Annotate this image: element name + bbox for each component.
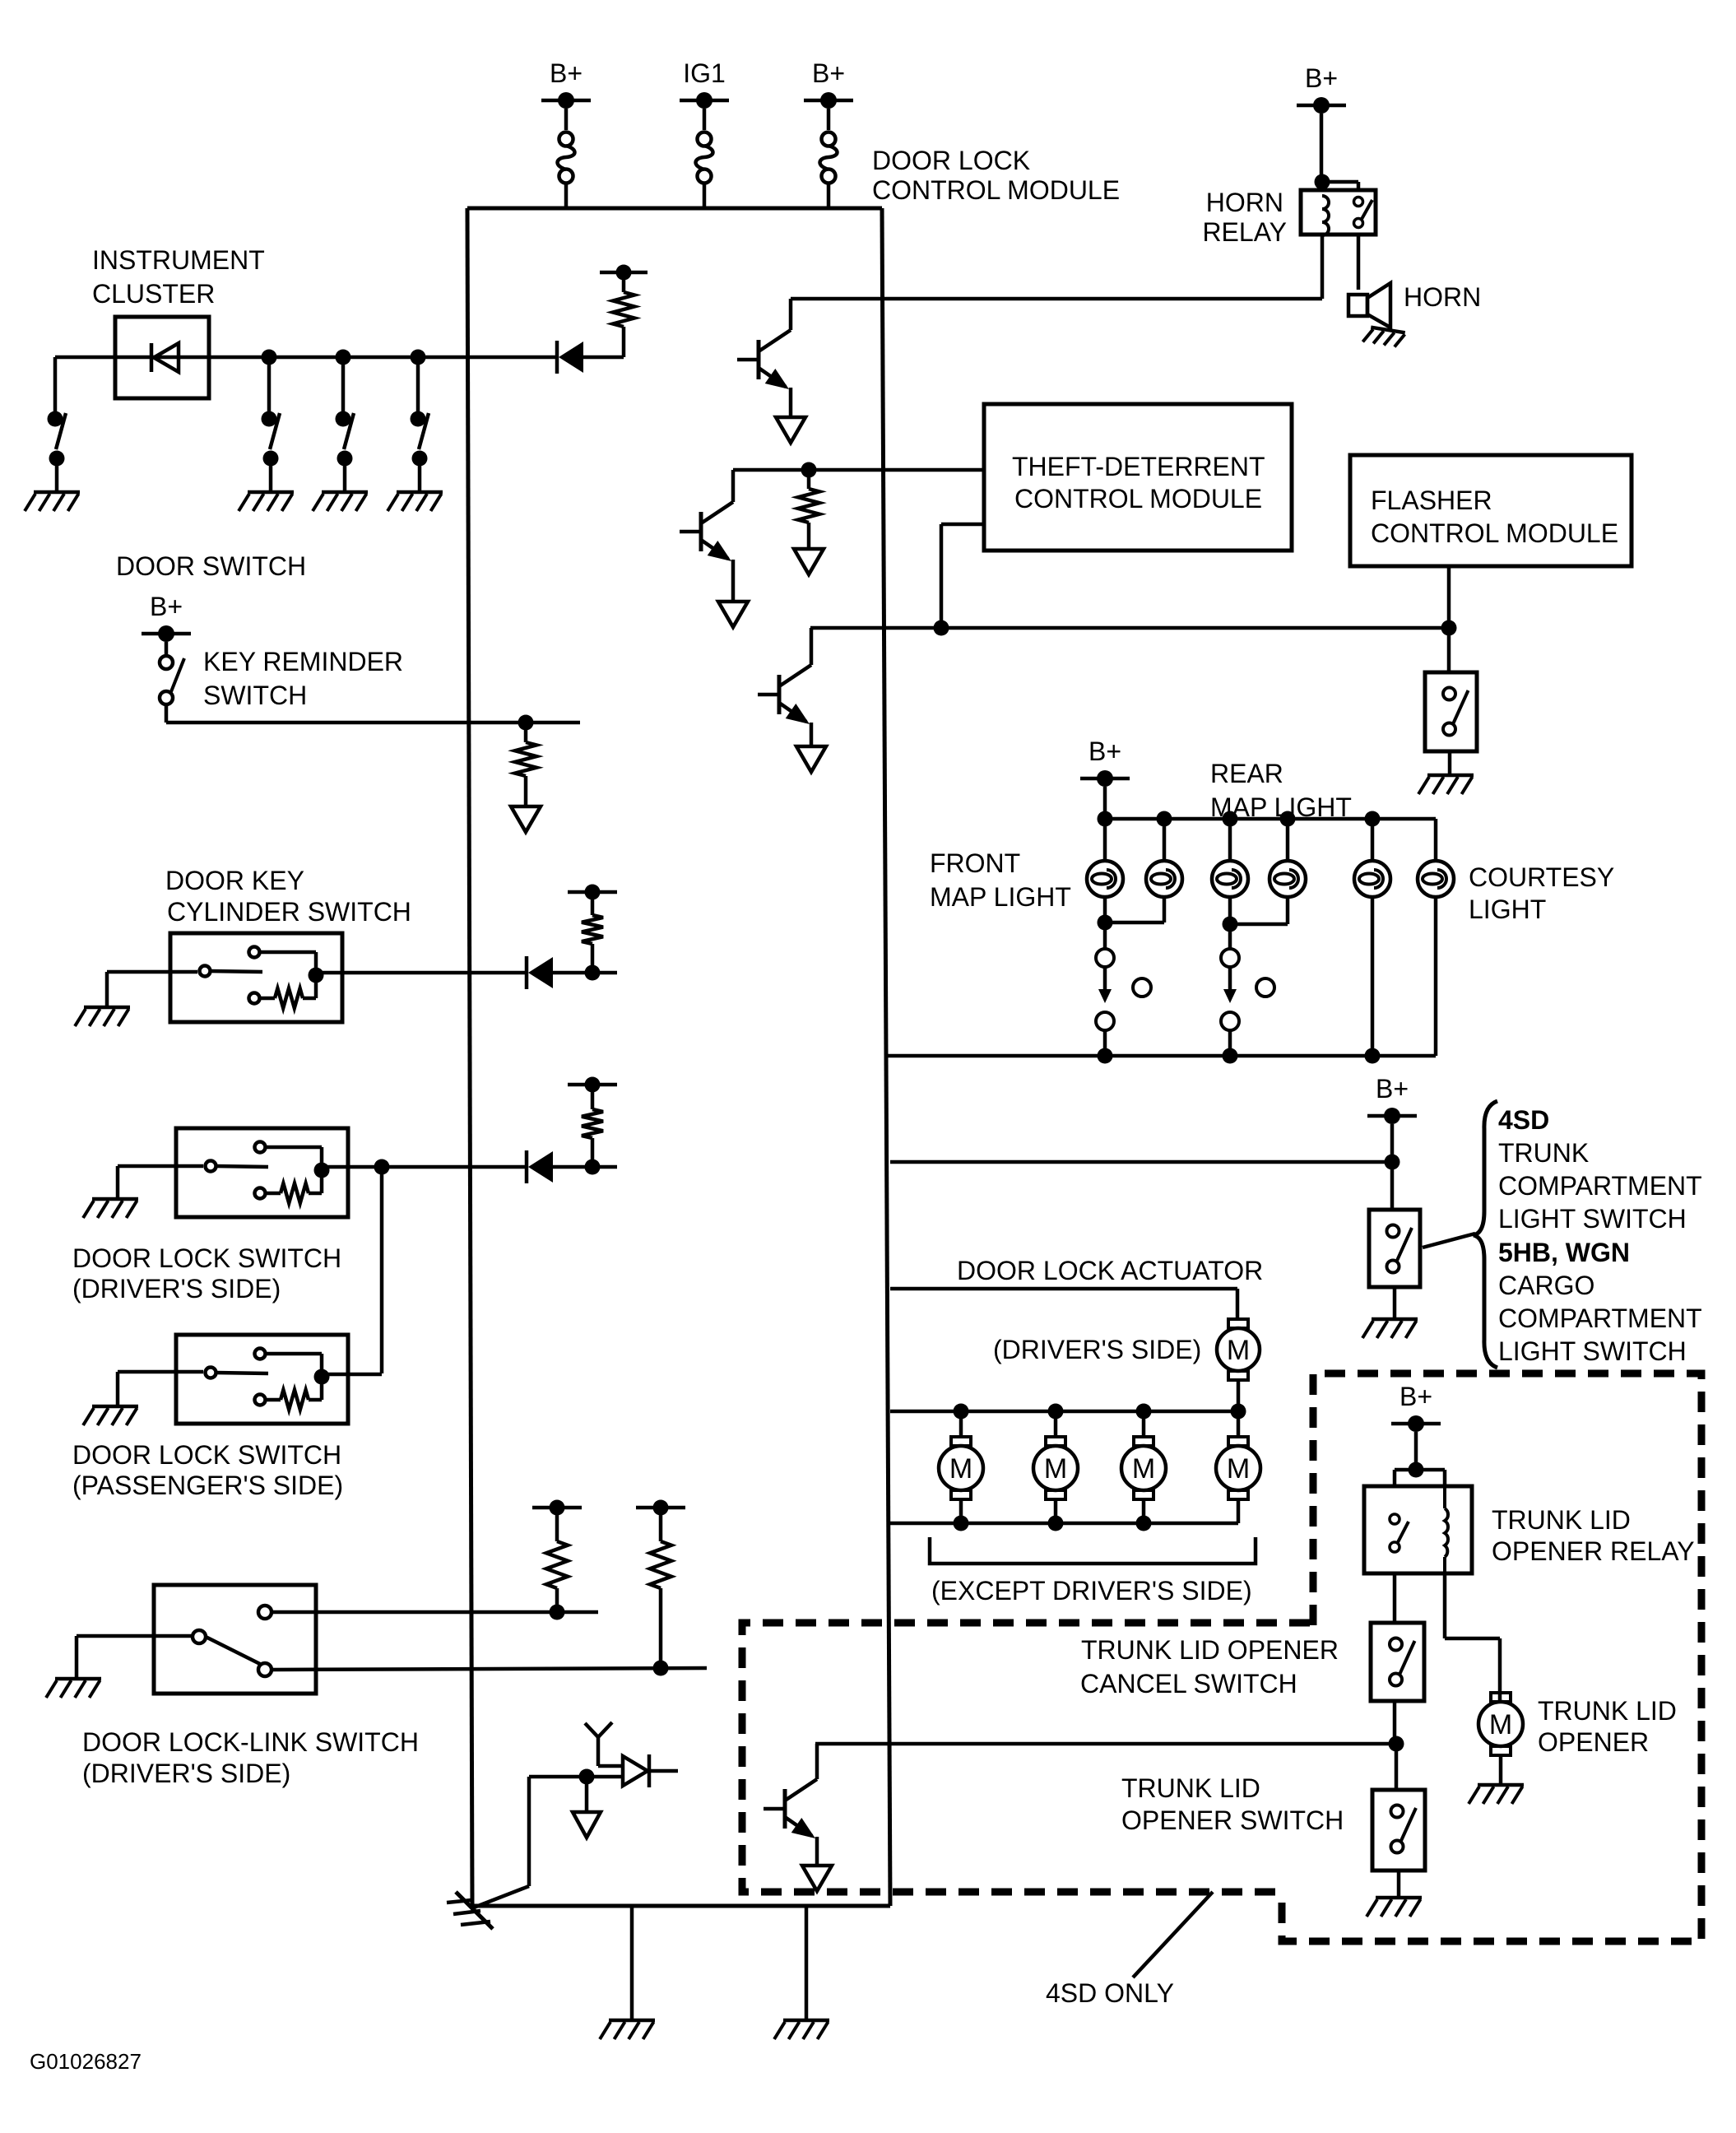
svg-text:TRUNK LID: TRUNK LID [1492,1505,1631,1535]
wire [1321,235,1325,299]
svg-text:OPENER SWITCH: OPENER SWITCH [1121,1805,1344,1835]
wire [941,523,984,527]
door lock switch S9 (passenger side) [176,1335,348,1424]
lamp E5 [1354,861,1390,897]
motor M1 (driver door lock actuator) [1228,1319,1248,1328]
motor M6 (trunk lid opener) [1491,1693,1511,1702]
wire [1357,235,1361,290]
ground [609,2019,655,2023]
rear map light switch contacts [1228,924,1232,949]
svg-text:(PASSENGER'S SIDE): (PASSENGER'S SIDE) [72,1471,343,1500]
motor M2 (door lock actuator) [951,1437,971,1446]
svg-text:DOOR LOCK-LINK SWITCH: DOOR LOCK-LINK SWITCH [82,1727,419,1757]
wire [1103,819,1107,861]
node U [1365,1048,1381,1064]
theft-deterrent control module U2 box [984,404,1292,551]
wire [564,109,569,130]
wire [55,355,557,360]
wire [1054,1411,1058,1437]
node AB [1048,1516,1064,1531]
resistor R3 [524,723,528,742]
trunk lid opener switch S13 [1372,1790,1425,1870]
door switch S1 [53,357,58,419]
wire [529,1775,623,1779]
motor M4 (door lock actuator) [1134,1437,1153,1446]
svg-text:DOOR LOCK SWITCH: DOOR LOCK SWITCH [72,1440,341,1470]
wire [1103,897,1107,922]
resistor R6 [555,1588,559,1612]
ground [84,1006,130,1010]
wire [1390,1162,1395,1210]
wire [1142,1411,1146,1437]
wire [1142,1499,1146,1523]
wire [1371,819,1375,861]
svg-text:B+: B+ [1376,1074,1409,1104]
svg-text:B+: B+ [812,58,845,88]
trunk compartment light switch S10 [1369,1210,1420,1287]
door switch S2 [267,357,272,419]
svg-text:B+: B+ [1088,737,1121,766]
wire [1414,1432,1418,1470]
ground [1372,1317,1418,1322]
diode D4 [525,1150,529,1183]
node Y [1136,1404,1152,1420]
ground [92,1405,138,1409]
ground [1478,1783,1524,1787]
svg-text:(DRIVER'S SIDE): (DRIVER'S SIDE) [82,1759,290,1788]
transistor Q2 [680,530,701,534]
wire [1443,1573,1447,1638]
floating output [794,549,824,574]
wire [1322,180,1358,184]
node K [585,1159,601,1175]
wire [1286,819,1290,861]
node F [934,620,949,636]
wire [583,355,624,360]
wire [1395,1744,1399,1790]
svg-text:KEY REMINDER: KEY REMINDER [203,647,403,676]
wire [1228,819,1232,861]
door lock-link switch box S11 [154,1585,316,1694]
wire [1393,1701,1397,1744]
lamp E1 (front map light) [1087,861,1123,897]
wire [1397,1870,1401,1896]
svg-text:DOOR LOCK: DOOR LOCK [872,146,1030,175]
node AD [550,1605,565,1620]
wire [1390,1124,1395,1162]
wire [1395,1468,1445,1472]
wire [77,1634,193,1638]
resistor R2 [807,470,811,489]
fuse F3 [822,132,836,146]
node V [1385,1155,1400,1170]
svg-text:M: M [1227,1453,1250,1485]
wire [1448,751,1452,774]
node W [954,1404,969,1420]
node AH [1389,1736,1404,1752]
node I [585,965,601,981]
svg-text:CYLINDER SWITCH: CYLINDER SWITCH [167,897,411,927]
svg-text:LIGHT SWITCH: LIGHT SWITCH [1498,1336,1687,1366]
transistor Q3 [758,693,779,697]
node R5 pull-up bar [568,1083,617,1087]
motor M3 (door lock actuator) [1046,1437,1065,1446]
node X [1048,1404,1064,1420]
wire [322,1165,527,1169]
wire [1228,897,1232,924]
lamp E4 [1270,861,1306,897]
door key cylinder switch S7 [170,933,342,1022]
wire [805,1906,809,2019]
wire [791,297,1322,301]
wire [733,468,984,472]
svg-text:FRONT: FRONT [930,848,1020,878]
wire [107,970,197,974]
wire [1320,114,1324,182]
svg-text:TRUNK LID: TRUNK LID [1121,1773,1260,1803]
floating output [585,1777,589,1812]
wire [1103,787,1107,819]
node R4 pull-up bar [568,890,617,895]
svg-text:CONTROL MODULE: CONTROL MODULE [1014,484,1262,513]
ground [34,490,80,495]
svg-text:IG1: IG1 [683,58,726,88]
wire [1237,1381,1241,1411]
svg-text:COMPARTMENT: COMPARTMENT [1498,1171,1702,1201]
node R [1223,917,1238,932]
flasher ground switch S5 [1425,672,1477,751]
lamp E2 [1146,861,1182,897]
ground [1362,327,1404,348]
ground [1427,774,1474,778]
svg-text:DOOR LOCK ACTUATOR: DOOR LOCK ACTUATOR [957,1256,1263,1285]
wire [165,704,169,723]
instrument cluster box [115,317,209,398]
wire [1434,897,1438,1056]
svg-text:TRUNK LID OPENER: TRUNK LID OPENER [1081,1635,1339,1665]
wire [890,1287,1237,1291]
diode D3 [525,956,529,989]
wire [1054,1499,1058,1523]
resistor R5 [591,1138,595,1167]
svg-text:(DRIVER'S SIDE): (DRIVER'S SIDE) [993,1335,1201,1364]
wire [118,1164,203,1169]
resistor R4 [591,944,595,973]
svg-text:CLUSTER: CLUSTER [92,279,215,309]
svg-text:M: M [1044,1453,1067,1485]
wire [1371,897,1375,1056]
wire [118,1370,203,1374]
node C [411,350,426,365]
diode D1 (instrument cluster) [150,343,154,372]
svg-text:LIGHT: LIGHT [1469,895,1546,924]
bracket [930,1537,1256,1564]
relay K2 (trunk lid opener relay) [1364,1486,1472,1573]
node L [1098,811,1113,827]
node M [1157,811,1172,827]
wire [1447,628,1451,672]
node Q [1098,915,1113,931]
ground [92,1197,138,1201]
svg-text:M: M [1227,1335,1250,1366]
dashed box (trunk opener, right) [1282,1373,1701,1941]
svg-text:G01026827: G01026827 [30,2049,142,2074]
svg-text:SWITCH: SWITCH [203,681,307,710]
fuse F2 [698,132,712,146]
svg-text:4SD ONLY: 4SD ONLY [1046,1978,1174,2008]
wire [1163,819,1167,861]
ground [783,2019,829,2023]
wire [316,971,527,975]
svg-text:CONTROL MODULE: CONTROL MODULE [1371,518,1618,548]
svg-text:OPENER: OPENER [1538,1727,1649,1757]
wire [1499,1755,1503,1783]
node Z [1231,1404,1246,1420]
wire [553,971,617,975]
node P [1365,811,1381,827]
node AG [1409,1462,1424,1478]
door switch S4 [416,357,420,419]
wire [1105,817,1436,821]
map light switch contacts [1103,922,1107,949]
svg-text:FLASHER: FLASHER [1371,486,1492,515]
ground [55,1677,101,1681]
horn SP1 [1348,295,1367,316]
node AC [1136,1516,1152,1531]
wire [1237,1411,1241,1437]
svg-text:HORN: HORN [1404,282,1481,312]
fuse F1 [559,132,573,146]
wire [630,1906,634,2019]
wire [322,1373,382,1377]
transistor Q4 [764,1807,785,1811]
diode D2 [555,341,559,374]
wire [827,109,831,130]
svg-text:B+: B+ [550,58,583,88]
wire [810,626,1449,630]
wire [890,1160,1392,1164]
svg-text:CARGO: CARGO [1498,1271,1594,1300]
node B [336,350,351,365]
wire [527,1777,531,1886]
node AE [653,1661,669,1676]
wire [380,1167,384,1373]
svg-text:M: M [1489,1709,1512,1740]
node AA [954,1516,969,1531]
leader line 4SD ONLY [1133,1892,1213,1977]
flasher control module U3 box [1350,455,1632,566]
node R7 pull-up bar [636,1506,685,1510]
node Y-fork [596,1737,601,1766]
transistor Q1 [737,358,759,362]
node R1 pull-up bar [600,271,648,275]
node O [1280,811,1296,827]
svg-text:CONTROL MODULE: CONTROL MODULE [872,175,1120,205]
wire [1393,1573,1397,1623]
node AF [579,1769,595,1785]
door switch S3 [341,357,346,419]
wire [272,1668,707,1670]
svg-text:OPENER RELAY: OPENER RELAY [1492,1536,1695,1566]
node E [801,462,817,478]
svg-text:B+: B+ [150,592,183,621]
svg-text:TRUNK: TRUNK [1498,1138,1589,1168]
svg-text:CANCEL SWITCH: CANCEL SWITCH [1080,1669,1297,1698]
svg-text:COMPARTMENT: COMPARTMENT [1498,1303,1702,1333]
chassis ground at module corner [456,1892,493,1929]
svg-text:M: M [1132,1453,1155,1485]
floating output [511,806,541,832]
dashed box (4SD only, left) [742,1623,1310,1892]
svg-text:MAP LIGHT: MAP LIGHT [930,882,1071,912]
resistor R1 [622,327,626,357]
lamp E6 (courtesy light) [1418,861,1454,897]
node T [1223,1048,1238,1064]
wire [272,1610,598,1615]
node D [1315,174,1330,190]
resistor R7 [659,1588,663,1668]
door lock switch S8 (driver side) [176,1128,348,1217]
svg-text:THEFT-DETERRENT: THEFT-DETERRENT [1012,452,1265,481]
brace [1474,1101,1497,1368]
trunk lid opener cancel switch S12 [1371,1623,1424,1701]
key reminder switch S6 [165,642,169,656]
wire [1393,1287,1397,1317]
wire [815,1742,1396,1746]
svg-text:DOOR SWITCH: DOOR SWITCH [116,551,306,581]
wire [1447,566,1451,628]
svg-text:(DRIVER'S SIDE): (DRIVER'S SIDE) [72,1274,281,1303]
wire [890,1522,1238,1526]
svg-text:LIGHT SWITCH: LIGHT SWITCH [1498,1204,1687,1234]
diode D5 [623,1756,648,1786]
svg-text:DOOR LOCK SWITCH: DOOR LOCK SWITCH [72,1243,341,1273]
svg-text:REAR: REAR [1210,759,1283,788]
wire [1237,1499,1241,1523]
svg-text:B+: B+ [1399,1382,1432,1411]
ground [1376,1896,1422,1900]
lamp E3 (rear map light) [1212,861,1248,897]
svg-text:4SD: 4SD [1498,1105,1549,1135]
svg-text:5HB, WGN: 5HB, WGN [1498,1238,1630,1267]
wire [598,1764,623,1768]
node G [1441,620,1457,636]
svg-text:B+: B+ [1305,63,1338,93]
node S [1098,1048,1113,1064]
svg-text:HORN: HORN [1206,188,1283,217]
wire [649,1769,678,1773]
svg-text:(EXCEPT DRIVER'S SIDE): (EXCEPT DRIVER'S SIDE) [931,1576,1252,1606]
svg-text:INSTRUMENT: INSTRUMENT [92,245,265,275]
node A [262,350,277,365]
wire [553,1165,617,1169]
node J [374,1159,390,1175]
svg-text:TRUNK LID: TRUNK LID [1538,1696,1677,1726]
node N [1223,811,1238,827]
wire [959,1411,963,1437]
svg-text:M: M [949,1453,972,1485]
wire [1163,897,1167,922]
svg-text:DOOR KEY: DOOR KEY [165,866,304,895]
wire [703,109,707,130]
wire [959,1499,963,1523]
door lock control module U1 outline [467,207,882,211]
node R6 pull-up bar [532,1506,582,1510]
wire [886,1054,1436,1058]
node H [518,715,534,731]
relay K1 (horn relay) [1301,190,1376,235]
motor M5 (door lock actuator) [1228,1437,1248,1446]
svg-text:COURTESY: COURTESY [1469,862,1614,892]
wire [890,1410,1238,1414]
leader line [1423,1234,1475,1248]
wire [1286,897,1290,924]
svg-text:RELAY: RELAY [1202,217,1287,247]
